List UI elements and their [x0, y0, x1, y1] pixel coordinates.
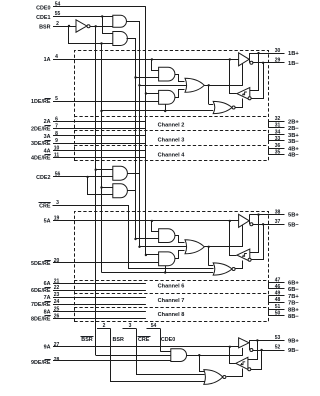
driver output bar ch5	[249, 215, 251, 225]
pin 32 stub (2B+)	[268, 121, 284, 123]
OR gate channel 1	[185, 78, 204, 92]
wire NOR9 output to receiver enable	[227, 369, 243, 377]
bracket channel 4 B pins	[268, 148, 270, 154]
svg-text:2B−: 2B−	[288, 126, 299, 132]
bracket channel 2 B pins	[268, 121, 270, 128]
dashed separator channel5/channel6	[74, 280, 268, 282]
receiver R5	[237, 249, 250, 261]
wire NOR output to receiver enable ch1	[236, 99, 243, 108]
pin 48 stub (7B&#8722;)	[268, 302, 284, 304]
wire CDE2 pin 56 to AND gate G3	[53, 176, 113, 178]
node BSR branch to G4	[100, 186, 102, 188]
wire B- to receiver input bubble ch5	[252, 225, 264, 260]
wire OR output to NOR input ch5	[208, 247, 210, 266]
wire BSR-bar to AND gate G1 bottom input	[90, 26, 113, 28]
wire driver 9 enable vertical	[242, 348, 244, 355]
wire driver D5 input	[230, 220, 239, 222]
driver D1	[239, 53, 250, 66]
wire BSR-bar long vertical	[95, 26, 97, 355]
node select branch OR ch1	[138, 84, 140, 86]
svg-text:7B+: 7B+	[288, 294, 299, 300]
pin 50 stub (8B&#8722;)	[268, 315, 284, 317]
svg-text:Channel 3: Channel 3	[158, 138, 185, 144]
pin 3 stub (bottom CRE)	[123, 328, 137, 330]
wire 1DE/RE to AND-b bottom input	[53, 101, 159, 103]
bracket channel 7 B pins	[268, 296, 270, 303]
hysteresis symbol receiver ch9	[240, 362, 245, 365]
svg-text:8A: 8A	[44, 309, 51, 315]
wire 5DE/RE to AND-b bottom input	[53, 262, 159, 264]
wire B- to receiver input bubble ch1	[252, 63, 264, 99]
wire to AND-b underside ch5	[165, 266, 167, 273]
svg-text:BSR: BSR	[39, 24, 50, 30]
svg-text:5A: 5A	[44, 218, 51, 224]
svg-text:51: 51	[275, 304, 281, 310]
svg-text:49: 49	[275, 291, 281, 297]
pin 35 stub (4B&#8722;)	[268, 154, 284, 156]
driver D5	[239, 214, 250, 227]
wire to receiver inverting input bubble	[251, 369, 262, 371]
svg-text:CDE2: CDE2	[36, 175, 50, 181]
wire CDE2 branch to AND gate G4 bottom input	[88, 177, 113, 195]
wire CRE to NOR9 middle input	[137, 329, 205, 375]
node B+ to receiver ch5	[257, 213, 259, 215]
node receiver output junction 5A	[229, 220, 231, 222]
svg-text:9A: 9A	[44, 345, 51, 351]
wire BSR long vertical	[101, 44, 103, 273]
wire NOR top input ch1	[209, 104, 214, 106]
wire 9B- line	[252, 350, 284, 352]
AND gate a channel 1	[159, 67, 175, 81]
svg-text:CRE: CRE	[138, 337, 150, 343]
node AND9 output junction	[198, 354, 200, 356]
AND gate G1 (CDE0/CDE1 decode)	[113, 15, 127, 27]
wire select to AND-b top input ch5	[146, 254, 159, 256]
wire CDE1 to AND gate G2 top input	[102, 33, 113, 35]
svg-text:32: 32	[275, 116, 281, 122]
wire G3 output to vertical	[128, 173, 140, 175]
node select branch AND-a ch1	[134, 76, 136, 78]
node select branch AND-b ch5	[145, 254, 147, 256]
svg-text:2B+: 2B+	[288, 119, 299, 125]
svg-text:3A: 3A	[44, 134, 51, 140]
wire BSR-bar to AND gate G3 top input	[96, 169, 113, 171]
AND gate a channel 5	[159, 229, 175, 243]
svg-text:CDE0: CDE0	[36, 5, 50, 11]
receiver R1	[237, 88, 250, 100]
wire select to OR middle input ch1	[140, 85, 187, 87]
bracket channel 8 B pins	[268, 309, 270, 316]
svg-text:38: 38	[275, 209, 281, 215]
svg-text:7A: 7A	[44, 295, 51, 301]
node B- to receiver ch1	[262, 62, 264, 64]
svg-text:Channel 8: Channel 8	[158, 312, 185, 318]
wire 9DE/RE to AND9 bottom input	[53, 360, 171, 362]
wire BSR pin 2	[53, 26, 76, 28]
group 1 dashed box (channels 1-4)	[75, 51, 269, 161]
inverter U1 output bubble	[87, 25, 90, 28]
wire driver enable vertical ch5	[242, 225, 244, 247]
dashed separator channel6/channel7	[74, 293, 268, 295]
node CDE1 junction	[101, 15, 103, 17]
wire CRE pin 3 to channel-5 NOR input	[53, 206, 214, 269]
wire CDE0 pin 54	[53, 6, 146, 8]
wire select to AND-b top input ch1	[146, 93, 159, 95]
inverter U1 (BSR)	[76, 20, 87, 32]
NOR gate channel 9	[204, 370, 223, 385]
pin 2 stub (bottom BSR)	[97, 328, 111, 330]
receiver input bubble ch1	[248, 97, 251, 100]
svg-text:4B+: 4B+	[288, 147, 299, 153]
wire BSR to AND gate G4 top input	[102, 187, 113, 189]
svg-text:2: 2	[56, 21, 59, 27]
svg-text:5B−: 5B−	[288, 222, 299, 228]
svg-text:35: 35	[275, 149, 281, 155]
receiver R9	[236, 357, 248, 369]
wire AND9 output to NOR9 top input	[200, 356, 205, 372]
svg-text:53: 53	[275, 335, 281, 341]
wire BSR feed to NOR bottom input ch1	[102, 110, 214, 112]
NOR gate channel 1	[213, 101, 232, 113]
svg-text:CDE0: CDE0	[161, 337, 175, 343]
wire OR output to NOR input ch1	[208, 85, 210, 104]
dashed separator channel7/channel8	[74, 307, 268, 309]
svg-text:3DE/RE: 3DE/RE	[31, 141, 51, 147]
svg-text:7DE/RE: 7DE/RE	[31, 302, 51, 308]
svg-text:34: 34	[275, 129, 281, 135]
wire AND-b output to OR ch5	[175, 251, 185, 259]
wire AND9 output to driver enable	[186, 355, 243, 357]
wire G4 output to vertical	[128, 190, 136, 192]
node B+ to receiver ch1	[257, 52, 259, 54]
node OR output junction ch1	[208, 84, 210, 86]
wire select to OR middle input ch5	[140, 246, 187, 248]
wire B+ line ch1	[249, 53, 284, 55]
svg-text:47: 47	[275, 277, 281, 283]
AND gate G2 (CDE0/CDE1 decode)	[113, 32, 128, 46]
node receiver output junction 1A	[229, 58, 231, 60]
pin 46 stub (6B&#8722;)	[268, 288, 284, 290]
AND gate G3 (group 2 decode)	[113, 166, 128, 180]
wire BSR to AND gate G2 bottom input	[69, 27, 113, 44]
svg-text:37: 37	[275, 219, 281, 225]
node B- to receiver ch5	[262, 223, 264, 225]
node receiver output junction 9A	[229, 346, 231, 348]
svg-text:48: 48	[275, 297, 281, 303]
wire 9A line	[53, 346, 230, 348]
svg-text:7B−: 7B−	[288, 301, 299, 307]
hysteresis symbol receiver ch5	[242, 254, 247, 257]
svg-text:46: 46	[275, 284, 281, 290]
wire driver enable vertical ch1	[242, 64, 244, 86]
svg-text:Channel 7: Channel 7	[158, 298, 185, 304]
node BSR-bar junction	[95, 25, 97, 27]
wire G1 output vertical	[127, 22, 140, 247]
wire BSR-bar to AND9 middle input	[96, 355, 171, 357]
AND gate channel 9 enable	[171, 349, 187, 362]
wire NOR output to receiver enable ch5	[236, 261, 243, 269]
wire BSR feed to NOR bottom input ch5	[102, 272, 214, 274]
driver inverted output bubble ch1	[250, 61, 253, 64]
wire OR output to driver enable ch5	[204, 246, 243, 248]
svg-text:4: 4	[55, 54, 58, 60]
svg-text:9DE/RE: 9DE/RE	[31, 360, 51, 366]
dashed separator channel2/channel3	[74, 130, 268, 132]
svg-text:30: 30	[275, 48, 281, 54]
node 1A junction to AND input	[151, 58, 153, 60]
pin 36 stub (4B+)	[268, 148, 284, 150]
wire CDE0 to AND9 top input	[160, 351, 171, 353]
wire receiver output to 1A ch1	[230, 60, 237, 94]
wire NOR top input ch5	[209, 265, 214, 267]
wire B- line ch5	[252, 224, 284, 226]
wire B+ to receiver input ch5	[250, 215, 259, 253]
svg-text:8DE/RE: 8DE/RE	[31, 316, 51, 322]
wire 5A line to driver input	[53, 220, 230, 222]
svg-text:29: 29	[275, 58, 281, 64]
AND gate G4 (group 2 decode)	[113, 184, 128, 198]
svg-text:3B−: 3B−	[288, 139, 299, 145]
wire 9B- vertical to receiver	[261, 350, 263, 370]
wire 1A to AND gate a top input	[152, 60, 159, 71]
wire CDE1 pin 55 to AND gate G1 top input	[53, 16, 113, 18]
pin 33 stub (3B&#8722;)	[268, 140, 284, 142]
svg-text:6B−: 6B−	[288, 287, 299, 293]
OR gate channel 5	[185, 240, 204, 254]
wire BSR to NOR9 bottom input	[111, 329, 205, 382]
wire 1A line to driver input	[53, 59, 230, 61]
svg-text:CRE: CRE	[39, 204, 51, 210]
svg-text:1B−: 1B−	[288, 61, 299, 67]
wire driver D1 input	[230, 59, 239, 61]
node OR output junction ch5	[208, 246, 210, 248]
wire driver D9 input	[230, 346, 239, 348]
svg-text:33: 33	[275, 136, 281, 142]
wire select to AND-a bottom input ch5	[136, 238, 159, 240]
svg-text:1B+: 1B+	[288, 51, 299, 57]
group 2 dashed box (channels 5-8)	[75, 212, 269, 322]
svg-text:BSR: BSR	[113, 337, 124, 343]
driver inverted output bubble ch5	[250, 223, 253, 226]
svg-text:54: 54	[151, 323, 157, 329]
wire AND-a output to OR ch1	[175, 75, 185, 82]
node 9B- to receiver	[260, 349, 262, 351]
wire CDE1 vertical	[102, 16, 104, 33]
svg-text:3B+: 3B+	[288, 133, 299, 139]
driver inverted output bubble ch9	[250, 349, 253, 352]
svg-text:3: 3	[129, 323, 132, 329]
svg-text:9B+: 9B+	[288, 338, 299, 344]
wire OR output to driver enable ch1	[204, 85, 243, 87]
pin 49 stub (7B+)	[268, 295, 284, 297]
receiver input bubble ch5	[248, 258, 251, 261]
wire 9B+ to receiver input	[248, 341, 258, 360]
svg-text:6A: 6A	[44, 281, 51, 287]
NOR gate channel 5	[213, 263, 232, 275]
svg-text:CDE1: CDE1	[36, 15, 50, 21]
svg-text:1A: 1A	[44, 57, 51, 63]
svg-text:BSR: BSR	[81, 337, 92, 343]
wire G2 output vertical	[127, 39, 136, 239]
wire B+ line ch5	[249, 214, 284, 216]
driver output bar ch1	[249, 53, 251, 63]
svg-text:2: 2	[103, 323, 106, 329]
wire AND-a output to OR ch5	[175, 236, 185, 243]
wire CDE0 bottom vertical	[160, 329, 162, 352]
svg-text:5B+: 5B+	[288, 213, 299, 219]
AND gate b channel 1	[159, 90, 175, 104]
driver output bar ch9	[249, 340, 251, 350]
svg-text:6B+: 6B+	[288, 281, 299, 287]
node select branch OR ch5	[138, 246, 140, 248]
wire B- line ch1	[252, 62, 284, 64]
node AND-b bottom feed ch1	[164, 110, 166, 112]
wire to AND-b underside ch1	[165, 104, 167, 111]
wire select to AND-a bottom input ch1	[136, 77, 159, 79]
svg-text:5DE/RE: 5DE/RE	[31, 261, 51, 267]
pin 31 stub (2B&#8722;)	[268, 127, 284, 129]
node BSR branch to group 2	[100, 42, 102, 44]
wire 9B+ line	[249, 340, 284, 342]
node BSR junction	[68, 25, 70, 27]
svg-text:8B−: 8B−	[288, 314, 299, 320]
svg-text:Channel 2: Channel 2	[158, 123, 185, 129]
driver D9	[239, 338, 249, 348]
svg-text:8B+: 8B+	[288, 308, 299, 314]
receiver input bubble ch9	[248, 368, 251, 371]
hysteresis symbol receiver ch1	[242, 92, 247, 95]
svg-text:9B−: 9B−	[288, 348, 299, 354]
AND gate b channel 5	[159, 252, 175, 266]
bracket channel 6 B pins	[268, 283, 270, 290]
svg-text:19: 19	[54, 216, 60, 222]
svg-text:2DE/RE: 2DE/RE	[31, 127, 51, 133]
svg-text:4DE/RE: 4DE/RE	[31, 155, 51, 161]
svg-text:4B−: 4B−	[288, 153, 299, 159]
svg-text:2A: 2A	[44, 119, 51, 125]
svg-text:4A: 4A	[44, 148, 51, 154]
svg-text:52: 52	[275, 345, 281, 351]
pin 47 stub (6B+)	[268, 282, 284, 284]
node 9B+ to receiver	[256, 339, 258, 341]
svg-text:1DE/RE: 1DE/RE	[31, 99, 51, 105]
pin 34 stub (3B+)	[268, 134, 284, 136]
wire receiver output to 5A ch5	[230, 221, 237, 256]
svg-text:Channel 4: Channel 4	[158, 153, 186, 159]
svg-text:Channel 6: Channel 6	[158, 284, 185, 290]
wire CDE0 vertical drop	[145, 7, 147, 254]
wire receiver output to 9A	[230, 347, 236, 364]
node CDE2 branch	[86, 176, 88, 178]
node select branch AND-a ch5	[134, 238, 136, 240]
node 5A junction to AND input	[151, 220, 153, 222]
svg-text:50: 50	[275, 311, 281, 317]
node BSR branch to NOR ch1	[100, 110, 102, 112]
pin 54 stub (bottom CDE0)	[147, 328, 161, 330]
bracket channel 3 B pins	[268, 135, 270, 141]
node AND-b bottom feed ch5	[164, 271, 166, 273]
wire AND-b output to OR ch1	[175, 90, 185, 98]
dashed separator channel3/channel4	[74, 145, 268, 147]
dashed separator channel1/channel2	[74, 116, 268, 118]
svg-text:31: 31	[275, 122, 281, 128]
svg-text:6DE/RE: 6DE/RE	[31, 288, 51, 294]
node select branch AND-b ch1	[145, 92, 147, 94]
pin 51 stub (8B+)	[268, 309, 284, 311]
node BSR-bar branch to G3	[95, 169, 97, 171]
svg-text:36: 36	[275, 143, 281, 149]
wire 5A to AND gate a top input	[152, 221, 159, 232]
wire B+ to receiver input ch1	[250, 54, 259, 91]
